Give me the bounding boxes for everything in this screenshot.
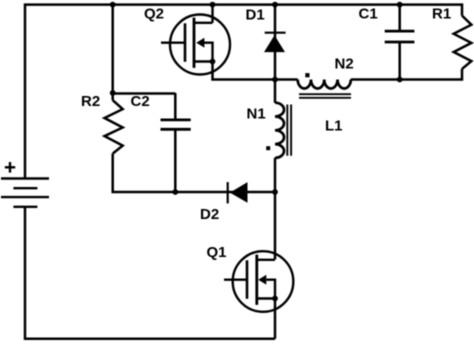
svg-text:R1: R1 [432,6,451,23]
svg-text:R2: R2 [81,93,100,110]
svg-text:Q1: Q1 [207,244,227,261]
svg-text:N2: N2 [335,55,354,72]
svg-text:D2: D2 [200,206,219,223]
svg-text:D1: D1 [246,6,265,23]
svg-text:L1: L1 [325,118,343,135]
svg-text:C2: C2 [131,93,150,110]
svg-text:C1: C1 [359,6,378,23]
svg-text:N1: N1 [247,106,266,123]
svg-text:Q2: Q2 [144,6,164,23]
